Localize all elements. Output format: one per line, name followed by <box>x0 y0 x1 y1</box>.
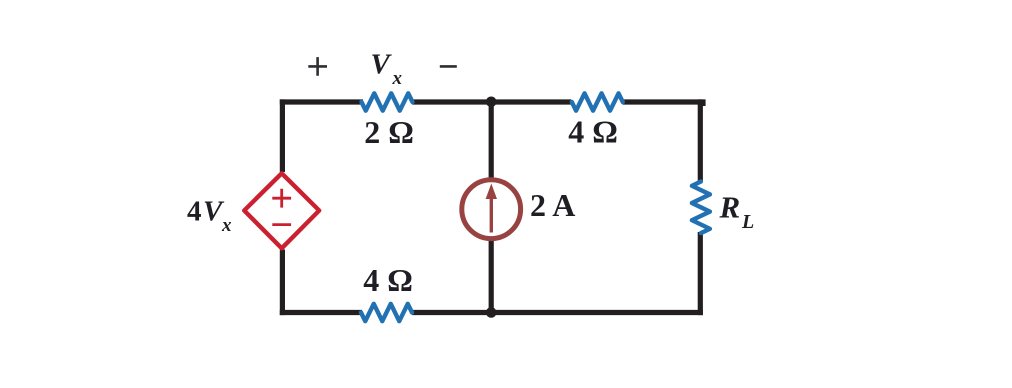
Vx voltage label (top) <box>371 49 403 90</box>
resistor 4 ohm (bottom) value label <box>363 262 413 298</box>
svg-text:2 Ω: 2 Ω <box>364 114 414 150</box>
svg-text:4 Ω: 4 Ω <box>568 114 618 150</box>
wire middle vertical lower (current source to node B) <box>489 240 494 313</box>
resistor 2 ohm zigzag (top left) <box>362 93 413 110</box>
resistor 4 ohm zigzag (bottom) <box>361 304 412 321</box>
wire right vertical upper (top-right corner to RL) <box>698 99 703 182</box>
dependent source plus polarity mark <box>272 189 291 208</box>
current source 2A circle <box>462 180 521 239</box>
wire bottom segment left (bottom-left corner to 4ohm resistor) <box>280 310 362 315</box>
svg-text:4 Ω: 4 Ω <box>363 262 413 298</box>
wire top segment middle (2ohm resistor to 4ohm resistor) <box>412 99 571 104</box>
node A junction dot (top middle) <box>486 97 497 108</box>
wire top segment left (node A to 2ohm resistor) <box>280 99 363 104</box>
wire left vertical upper (top-left corner to dependent source) <box>280 99 285 172</box>
node B junction dot (bottom middle) <box>486 307 497 318</box>
wire top segment right (4ohm resistor to top-right corner) <box>623 102 704 106</box>
resistor 2 ohm value label <box>364 114 414 150</box>
svg-text:R: R <box>719 190 741 225</box>
svg-text:L: L <box>741 211 754 233</box>
resistor 4 ohm zigzag (top right) <box>572 93 623 110</box>
svg-text:x: x <box>221 215 232 236</box>
svg-text:V: V <box>371 49 393 81</box>
current source arrow <box>486 184 497 233</box>
plus sign label (Vx polarity, top) <box>308 57 327 76</box>
resistor 4 ohm (top right) value label <box>568 114 618 150</box>
dependent source minus polarity mark <box>272 223 291 226</box>
minus sign label (Vx polarity, top) <box>440 65 457 68</box>
wire left vertical lower (dependent source to bottom-left corner) <box>280 250 285 316</box>
svg-text:2 A: 2 A <box>530 187 575 223</box>
wire bottom segment right (4ohm resistor to bottom-right corner) <box>412 310 703 315</box>
dependent voltage source 4Vx diamond <box>244 173 319 248</box>
svg-text:x: x <box>392 68 403 89</box>
svg-text:4: 4 <box>187 196 202 228</box>
resistor RL zigzag (right, vertical) <box>692 182 710 234</box>
dependent source 4Vx label <box>187 196 232 236</box>
wire middle vertical upper (node A to current source) <box>489 102 494 179</box>
current source 2A value label <box>530 187 575 223</box>
wire right vertical lower (RL to bottom-right corner) <box>698 232 703 315</box>
resistor RL label <box>719 190 755 234</box>
